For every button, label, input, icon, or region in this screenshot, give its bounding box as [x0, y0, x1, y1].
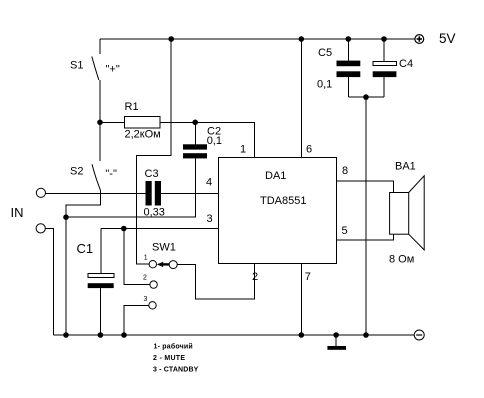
- wire: +5V top rail: [100, 38, 415, 40]
- svg-text:2,2кОм: 2,2кОм: [125, 128, 161, 140]
- capacitor C5: [337, 39, 361, 97]
- wire: C1 top lead: [100, 229, 102, 274]
- capacitor C4 (electrolytic): [373, 39, 397, 97]
- svg-text:C1: C1: [77, 241, 94, 256]
- svg-text:R1: R1: [125, 101, 139, 113]
- ground: [327, 335, 346, 350]
- wire: contact3 branch to bottom rail: [124, 305, 149, 335]
- wire: pin 7 to bottom rail: [300, 264, 302, 336]
- junction: top rail to pin 6: [299, 36, 305, 42]
- wire: S1 to S2 vertical: [99, 80, 101, 161]
- wire: bottom (ground) rail: [53, 334, 414, 336]
- svg-text:C3: C3: [145, 168, 159, 180]
- SW1 contact 2: [150, 281, 157, 288]
- svg-text:TDA8551: TDA8551: [260, 195, 306, 207]
- svg-text:2: 2: [252, 271, 258, 283]
- svg-text:C4: C4: [399, 58, 413, 70]
- wire: S1 upper stub: [99, 39, 101, 54]
- junction: bottom rail / pin 7: [299, 332, 305, 338]
- terminal: IN upper: [36, 188, 45, 197]
- svg-text:S2: S2: [70, 166, 83, 178]
- svg-text:SW1: SW1: [152, 242, 176, 254]
- switch S2: [92, 164, 100, 190]
- svg-text:5V: 5V: [439, 31, 456, 46]
- wire: R1 left lead: [100, 121, 125, 123]
- SW1 pole arrow: [157, 262, 170, 267]
- svg-text:2: 2: [143, 274, 147, 281]
- svg-text:S1: S1: [70, 59, 83, 71]
- wire: SW1 pole to pin 2: [177, 264, 254, 300]
- wire: IN lower to bottom rail: [45, 228, 53, 335]
- wire: C2 top stub: [194, 122, 196, 144]
- svg-text:5: 5: [342, 225, 348, 237]
- SW1 contact 1: [149, 261, 156, 268]
- terminal: IN lower: [36, 224, 45, 233]
- svg-text:4: 4: [206, 177, 212, 189]
- wire: R1 right lead to pin1 corner: [160, 122, 255, 157]
- svg-text:0,1: 0,1: [317, 79, 332, 91]
- svg-text:0,33: 0,33: [144, 207, 165, 219]
- SW1 pole contact: [169, 261, 177, 269]
- junction: bottom rail / SW1 contact3: [121, 332, 127, 338]
- wire: pin 8 to speaker top: [337, 181, 394, 193]
- resistor R1: [125, 117, 161, 129]
- junction: R1 / C2 / pin1 node: [192, 120, 198, 126]
- wire: contact2 branch: [124, 229, 150, 285]
- junction: top rail to SW1 branch: [168, 36, 174, 42]
- svg-text:IN: IN: [11, 205, 24, 220]
- svg-text:0,1: 0,1: [207, 135, 222, 147]
- svg-text:1: 1: [144, 255, 148, 262]
- junction: bottom rail / C5C4 branch: [363, 332, 369, 338]
- svg-text:"-": "-": [105, 168, 117, 180]
- wire: input signal to C3: [46, 192, 146, 194]
- svg-text:2 - MUTE: 2 - MUTE: [153, 355, 185, 362]
- junction: R1 left node: [97, 120, 103, 126]
- wire: pin 6 to +5V rail: [300, 39, 302, 158]
- svg-text:8 Ом: 8 Ом: [389, 254, 414, 266]
- wire: pin 5 to speaker bottom: [337, 234, 394, 240]
- SW1 contact 3: [149, 302, 156, 309]
- wire: SW1 branch vertical from top rail: [136, 39, 171, 264]
- junction: bottom rail / C1: [98, 332, 104, 338]
- junction: ground branch node: [63, 214, 69, 220]
- op-amp / IC DA1 TDA8551: [219, 158, 337, 264]
- svg-text:"+": "+": [106, 64, 120, 76]
- svg-text:BA1: BA1: [395, 161, 416, 173]
- svg-text:3: 3: [207, 213, 213, 225]
- wire: C2 bottom to ground wire: [66, 158, 195, 217]
- svg-text:8: 8: [342, 165, 348, 177]
- svg-text:3: 3: [144, 296, 148, 303]
- svg-text:DA1: DA1: [265, 170, 286, 182]
- svg-text:7: 7: [305, 271, 311, 283]
- speaker BA1: [390, 176, 425, 250]
- svg-text:3 - CTANDBY: 3 - CTANDBY: [153, 366, 199, 373]
- capacitor C3: [146, 181, 162, 206]
- junction: top rail to C5: [346, 36, 352, 42]
- junction: C5/C4 bottom node: [363, 94, 369, 100]
- svg-text:6: 6: [306, 144, 312, 156]
- wire: C1 bottom lead: [99, 288, 101, 335]
- junction: top rail to C4: [381, 36, 387, 42]
- switch S1: [92, 57, 99, 81]
- wire: C3 to pin 4: [161, 192, 219, 194]
- wire: C5/C4 node down to bottom rail: [365, 97, 367, 335]
- svg-text:1- рабочий: 1- рабочий: [154, 342, 193, 350]
- wire: C5/C4 bottom link: [348, 96, 384, 98]
- svg-text:C5: C5: [318, 47, 332, 59]
- terminal: +5V supply (plus-in-circle): [415, 35, 424, 44]
- wire: S2 bottom jog to ground branch: [66, 190, 100, 335]
- junction: pin3 / SW1 contact2 node: [121, 226, 127, 232]
- capacitor C1: [88, 274, 114, 289]
- terminal: negative supply (minus-in-circle): [414, 330, 424, 340]
- junction: bottom rail / ground symbol: [333, 332, 339, 338]
- svg-text:1: 1: [240, 144, 246, 156]
- wire: pin 3 wire: [101, 228, 219, 230]
- capacitor C2: [183, 144, 207, 158]
- junction: bottom rail / S2 branch: [63, 332, 69, 338]
